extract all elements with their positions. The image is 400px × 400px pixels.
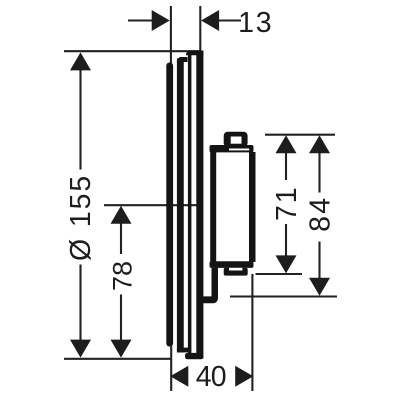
svg-text:78: 78 <box>107 261 137 291</box>
svg-text:13: 13 <box>238 7 273 39</box>
svg-text:40: 40 <box>196 361 226 393</box>
svg-text:Ø 155: Ø 155 <box>65 174 97 261</box>
svg-text:71: 71 <box>271 186 303 222</box>
svg-text:84: 84 <box>305 196 337 232</box>
